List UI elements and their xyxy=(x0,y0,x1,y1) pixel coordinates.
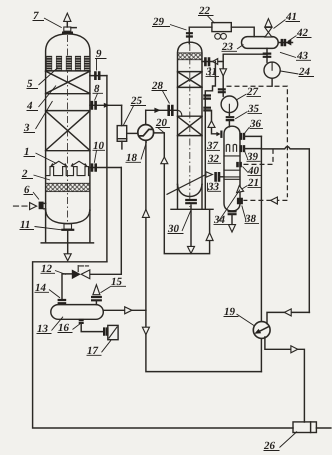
K2 feed hook xyxy=(178,110,182,116)
K2 upper X section xyxy=(178,72,203,88)
dashed return line with arrow xyxy=(243,197,287,204)
packed band (6) xyxy=(46,183,90,191)
packing X section (4) xyxy=(46,71,90,94)
label 41 xyxy=(274,11,301,29)
bottom outlet fitting (11) xyxy=(61,224,74,261)
label 7 xyxy=(33,10,62,28)
right downcomer into 19 xyxy=(267,309,309,324)
exchanger 18 top stub xyxy=(145,110,147,124)
branch pipe into vessel 21 fitting 37 xyxy=(205,110,221,137)
exchanger 19 bottom stub xyxy=(260,339,262,372)
label 10 xyxy=(93,140,106,163)
nozzle 10 line xyxy=(90,163,121,171)
19 outlet to ejector 26 xyxy=(265,337,305,422)
label 13 xyxy=(37,317,64,335)
label 42 xyxy=(288,27,312,41)
valve 12 down-leg to drum 13 nozzle 14 xyxy=(58,274,72,303)
top nozzle fitting (7) xyxy=(62,13,76,32)
stripper vessel 21 xyxy=(224,126,240,211)
label 23 xyxy=(221,41,244,53)
nozzle 9 line xyxy=(90,71,107,80)
steam trap 17 xyxy=(108,325,118,339)
label 31 xyxy=(205,66,219,78)
column K1 centerline xyxy=(67,35,69,223)
control valve 12 xyxy=(72,266,90,280)
line 22 to reflux drum xyxy=(231,27,254,37)
feed inlet nozzle + dashed arrow xyxy=(14,202,46,210)
label 25 xyxy=(124,95,147,125)
line 20 to column K2 with check arrow 28 xyxy=(146,105,178,116)
label 8 xyxy=(93,83,104,101)
label 6 xyxy=(24,184,40,200)
label 34 diagonal pointer xyxy=(213,190,240,226)
column K2 shell xyxy=(178,42,203,196)
column K2 centerline xyxy=(189,44,191,207)
label 18 xyxy=(126,142,147,165)
label 26 xyxy=(263,432,297,453)
pipe 8 down to heater 25 xyxy=(121,105,123,125)
label 22 xyxy=(198,5,215,23)
condenser 22 xyxy=(212,23,231,32)
label 24 xyxy=(281,66,315,78)
heater 25 xyxy=(117,126,127,149)
label 30 xyxy=(167,211,191,235)
column K1 support skirt xyxy=(41,210,93,243)
tube bundle section (5) xyxy=(46,56,90,71)
label 35 xyxy=(235,103,262,119)
nozzle 8 line xyxy=(90,101,122,110)
label 5 xyxy=(27,68,59,91)
pump 24 xyxy=(264,62,280,86)
label 27 xyxy=(237,86,262,100)
dashed branch to fitting 40 xyxy=(243,149,273,165)
label 37 xyxy=(206,140,220,152)
downleg to pump 27 xyxy=(220,62,227,97)
exchanger 18 right line down to bottoms header xyxy=(154,133,214,254)
label 21 with arrow pointer xyxy=(237,177,261,193)
exchanger 18 bottom riser pipe xyxy=(142,140,261,371)
label 12 xyxy=(41,263,67,275)
label 39 xyxy=(245,151,261,163)
vapour arrows section (1) xyxy=(51,161,86,166)
fitting 36 line to riser xyxy=(241,133,310,313)
drum bottom flange 43 to pump 24 xyxy=(263,48,272,62)
pipe 10 down to valve 12 xyxy=(90,168,122,275)
fitting 40 xyxy=(238,162,241,167)
label 1 xyxy=(24,146,57,164)
fitting 39 line xyxy=(241,145,262,152)
column K2 skirt + base xyxy=(171,185,213,209)
label 29 xyxy=(152,16,187,30)
reflux return line drum to K2 xyxy=(202,54,267,66)
link 25 to exchanger 18 xyxy=(127,132,138,134)
reflux drum (between 23 and 41) xyxy=(242,37,279,49)
fitting 33 into vessel 21 xyxy=(206,172,224,182)
sight glasses 23 xyxy=(215,33,227,39)
reflux drum 13 xyxy=(51,305,104,320)
drain line K2 side to vessel 21 (staircase) xyxy=(203,62,215,210)
K2 lower X section xyxy=(178,116,203,135)
exchanger 19 xyxy=(253,322,270,339)
label 16 xyxy=(58,322,81,334)
label 15 xyxy=(101,276,127,293)
label 2 xyxy=(21,168,50,180)
label 33 xyxy=(207,181,221,193)
column K1 shell xyxy=(46,34,90,224)
vessel 21 bottom outlet xyxy=(228,211,237,232)
drum 13 outlet line to riser tee xyxy=(103,307,146,314)
label 17 xyxy=(87,340,112,357)
flange 35 xyxy=(226,117,235,127)
label 36 xyxy=(244,118,263,134)
label 28 xyxy=(151,80,170,104)
pump 27 xyxy=(218,89,238,115)
relief valve 41 on drum xyxy=(265,19,272,37)
drum bottom fitting 16 + drain line to trap 17 xyxy=(79,320,108,336)
K2 bottom outlet xyxy=(185,200,197,253)
K2 chevron packing band xyxy=(178,53,203,60)
descending pipe from 9 xyxy=(106,76,108,262)
fitting 38 with dashed line xyxy=(238,198,241,205)
overhead line to condenser 22 xyxy=(189,26,212,28)
bottoms loop: pipe 9 elbow to big recycle loop xyxy=(33,262,331,428)
packing X section (3) xyxy=(46,111,90,151)
label 20 xyxy=(155,117,170,133)
label 40 xyxy=(243,165,262,177)
label 43 xyxy=(280,50,311,62)
vent fitting 15 on drum xyxy=(91,285,102,305)
label 19 xyxy=(224,306,255,326)
exchanger 18 xyxy=(138,125,154,141)
riser tray battlement (2) xyxy=(46,167,90,176)
label 4 xyxy=(26,86,56,113)
label 11 xyxy=(20,219,62,231)
label 14 xyxy=(35,282,61,298)
product draw 42 xyxy=(278,39,292,46)
label 9 xyxy=(95,48,107,71)
K2 top nozzle with flange xyxy=(186,27,193,43)
label 38 xyxy=(242,206,259,226)
dashed control box xyxy=(227,86,288,197)
riser pipe from 36/39 down to exchanger 19 xyxy=(260,136,262,321)
label 3 xyxy=(23,101,53,134)
label 32 xyxy=(207,153,221,165)
ejector pump 26 xyxy=(293,422,316,433)
bottoms diagonal feed to fitting 33 xyxy=(167,175,206,195)
